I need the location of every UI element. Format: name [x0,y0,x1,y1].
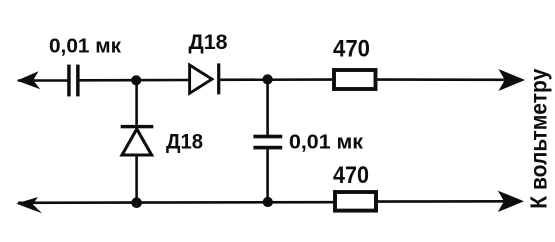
diode VD2 triangle (shunt, pointing up) [122,129,152,155]
wire middle branch vertical lower [266,149,269,202]
svg-text:Д18: Д18 [166,130,203,154]
wire left branch vertical lower [135,155,138,203]
node B top-right junction [263,74,273,84]
node D bottom-middle junction [263,197,273,207]
wire top rail segment 2 [79,79,189,82]
capacitor C1 plate right [76,65,80,97]
wire left branch vertical [135,80,138,126]
resistor R2 470 (bottom) [335,192,376,211]
svg-text:470: 470 [333,36,370,63]
wire top rail segment 4 [377,78,508,81]
svg-text:Д18: Д18 [189,30,228,54]
wire middle branch vertical [266,80,269,136]
node A top-left junction [131,75,141,85]
svg-text:470: 470 [333,162,369,189]
resistor R1 470 (top) [334,70,376,89]
capacitor C1 0,01 мк plate left [67,65,71,97]
capacitor C2 plate bottom [253,146,282,150]
diode VD1 cathode bar [217,63,220,94]
svg-text:0,01 мк: 0,01 мк [289,132,364,154]
arrow right bottom [498,191,524,212]
wire bottom rail segment 1 [18,201,334,204]
svg-text:К вольтметру: К вольтметру [525,69,551,209]
arrow left top [17,71,41,89]
wire top rail segment 3 [218,78,333,81]
wire top rail segment 1 [18,79,68,82]
node C bottom-left junction [131,197,142,208]
arrow right top [499,69,526,91]
wire bottom rail segment 2 [378,200,508,203]
svg-text:0,01 мк: 0,01 мк [49,35,122,57]
diode VD2 Д18 cathode bar (shunt) [121,125,154,128]
diode VD1 Д18 triangle [190,65,212,93]
arrow left bottom [16,197,42,213]
capacitor C2 plate top (shunt) [253,135,282,139]
